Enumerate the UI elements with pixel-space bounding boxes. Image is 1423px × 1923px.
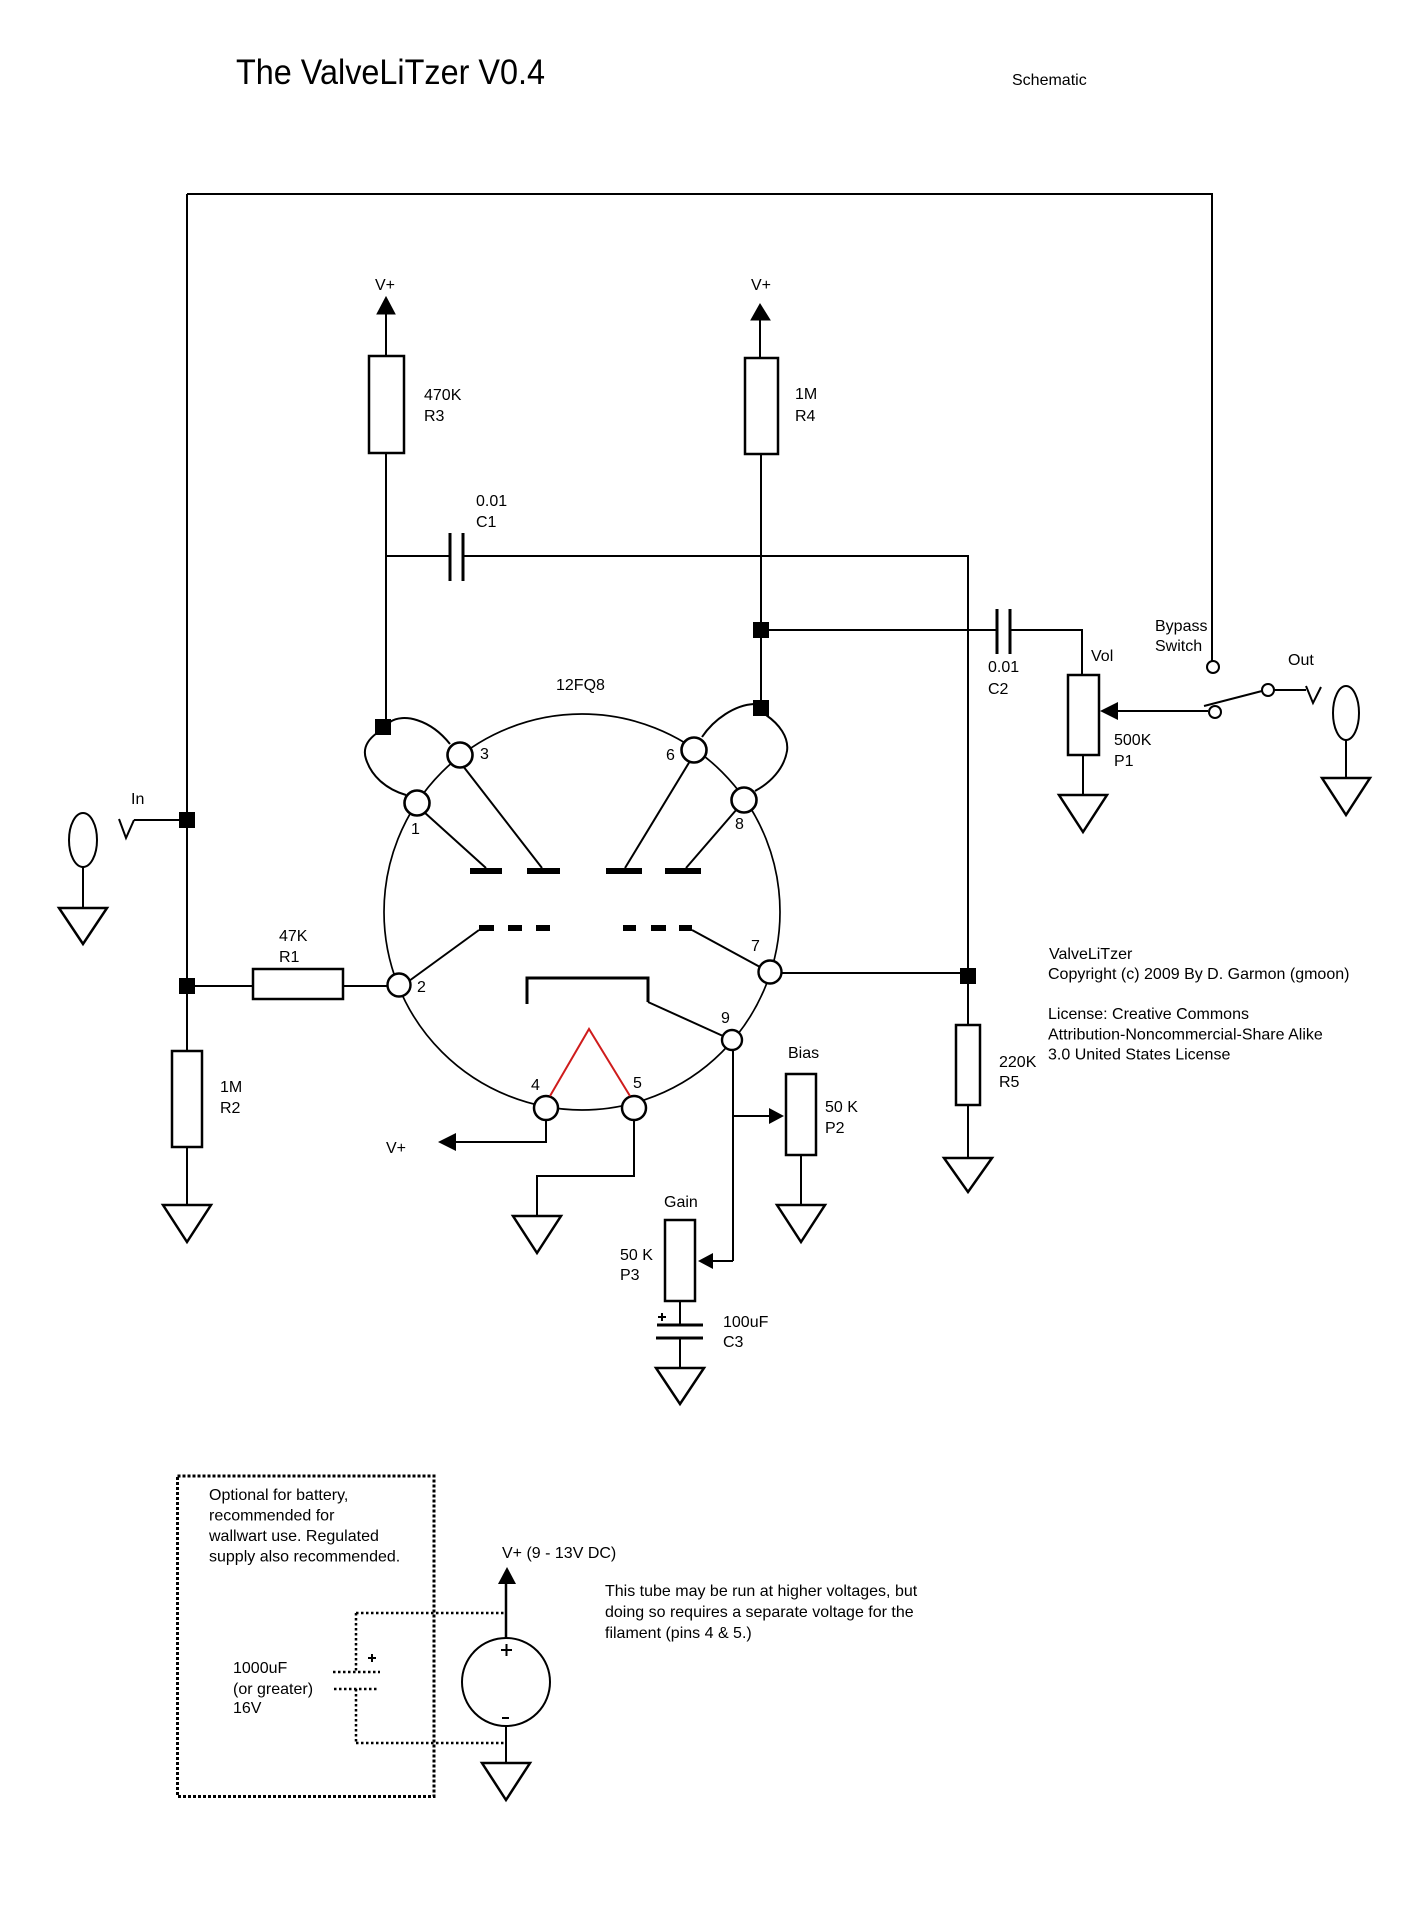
svg-text:wallwart use. Regulated: wallwart use. Regulated bbox=[208, 1528, 379, 1545]
wire jack In to ground bbox=[82, 867, 84, 908]
svg-text:C1: C1 bbox=[476, 514, 497, 531]
svg-text:1M: 1M bbox=[795, 386, 817, 403]
wire to P3 wiper bbox=[712, 1260, 733, 1262]
svg-text:0.01: 0.01 bbox=[988, 659, 1019, 676]
pin 3 bbox=[448, 743, 473, 768]
wire pin 1 to plate a bbox=[424, 812, 486, 868]
pin 4 bbox=[534, 1096, 558, 1120]
svg-text:supply also recommended.: supply also recommended. bbox=[209, 1549, 400, 1566]
wire P1 to ground bbox=[1082, 755, 1084, 795]
wire switch arm bbox=[1204, 691, 1262, 706]
wire grid left to pin 2 bbox=[409, 930, 479, 981]
power V+ source arrow bbox=[498, 1567, 516, 1584]
resistor R4 bbox=[745, 358, 778, 454]
svg-text:The ValveLiTzer V0.4: The ValveLiTzer V0.4 bbox=[236, 53, 545, 92]
filament (red) bbox=[550, 1029, 630, 1096]
svg-text:9: 9 bbox=[721, 1010, 730, 1027]
svg-text:filament (pins 4 & 5.): filament (pins 4 & 5.) bbox=[605, 1625, 752, 1642]
capacitor C2 bbox=[769, 629, 997, 631]
wire pin 5 to ground bbox=[537, 1119, 634, 1216]
plate anode c bbox=[606, 868, 642, 874]
wire loop to pin 3 bbox=[390, 718, 450, 744]
junction right grid loop node bbox=[753, 700, 769, 716]
wire to R1 bbox=[195, 985, 253, 987]
wire P3 to C3 bbox=[679, 1301, 681, 1325]
svg-text:This tube may be run at higher: This tube may be run at higher voltages,… bbox=[605, 1583, 918, 1600]
wire R1 to pin 2 bbox=[343, 985, 388, 987]
svg-text:8: 8 bbox=[735, 816, 744, 833]
source battery circle bbox=[462, 1638, 550, 1726]
svg-text:R3: R3 bbox=[424, 408, 445, 425]
wire node to R5 bbox=[967, 984, 969, 1025]
junction right column node bbox=[960, 968, 976, 984]
grid left dashes bbox=[479, 925, 494, 931]
pin 1 bbox=[405, 791, 430, 816]
capacitor plates dotted bbox=[333, 1671, 380, 1674]
wire P2 to ground bbox=[800, 1155, 802, 1205]
wire R2 to ground bbox=[186, 1147, 188, 1205]
svg-text:12FQ8: 12FQ8 bbox=[556, 677, 605, 694]
pin 2 bbox=[388, 974, 411, 997]
wire R4 down to loop node bbox=[760, 454, 762, 708]
svg-text:0.01: 0.01 bbox=[476, 493, 507, 510]
svg-text:1: 1 bbox=[411, 821, 420, 838]
tube 12FQ8 envelope bbox=[384, 714, 780, 1110]
ground Out jack bbox=[1322, 778, 1370, 815]
wire loop to pin 6 bbox=[702, 704, 754, 737]
svg-text:Bias: Bias bbox=[788, 1045, 819, 1062]
svg-text:500K: 500K bbox=[1114, 732, 1152, 749]
dashed option box bbox=[178, 1476, 435, 1797]
svg-text:100uF: 100uF bbox=[723, 1314, 769, 1331]
wire loop to pin 8 bbox=[755, 715, 787, 791]
svg-text:P3: P3 bbox=[620, 1267, 640, 1284]
capacitor C3 bbox=[657, 1324, 703, 1327]
wire R5 to ground bbox=[967, 1105, 969, 1158]
svg-text:C2: C2 bbox=[988, 681, 1009, 698]
svg-text:3.0 United States License: 3.0 United States License bbox=[1048, 1047, 1230, 1064]
svg-text:7: 7 bbox=[751, 938, 760, 955]
junction grid node bbox=[179, 978, 195, 994]
resistor R1 bbox=[253, 969, 343, 999]
junction In node bbox=[179, 812, 195, 828]
wire pin 4 to V+ bbox=[455, 1119, 546, 1142]
svg-text:1M: 1M bbox=[220, 1079, 242, 1096]
svg-text:Attribution-Noncommercial-Shar: Attribution-Noncommercial-Share Alike bbox=[1048, 1027, 1323, 1044]
svg-text:3: 3 bbox=[480, 746, 489, 763]
wire switch to Out bbox=[1274, 689, 1306, 691]
svg-text:50 K: 50 K bbox=[825, 1099, 858, 1116]
svg-text:4: 4 bbox=[531, 1077, 540, 1094]
wire pin 6 to plate c bbox=[625, 761, 690, 868]
svg-text:R4: R4 bbox=[795, 408, 816, 425]
svg-text:V+ (9 - 13V DC): V+ (9 - 13V DC) bbox=[502, 1545, 616, 1562]
jack tip symbol Out bbox=[1306, 686, 1321, 703]
wire jack Out to ground bbox=[1345, 740, 1347, 778]
wire feedback top loop bbox=[187, 194, 1212, 661]
wire dotted bottom bbox=[355, 1689, 358, 1743]
svg-text:Out: Out bbox=[1288, 652, 1314, 669]
wire loop to pin 1 bbox=[365, 733, 406, 795]
wire C1 to right column bbox=[463, 556, 968, 970]
svg-text:V+: V+ bbox=[386, 1140, 406, 1157]
wire pin 9 down bbox=[732, 1050, 734, 1261]
svg-text:220K: 220K bbox=[999, 1054, 1037, 1071]
svg-text:C3: C3 bbox=[723, 1334, 744, 1351]
svg-text:47K: 47K bbox=[279, 928, 308, 945]
svg-text:V+: V+ bbox=[751, 277, 771, 294]
wire cathode to pin 9 bbox=[648, 1002, 723, 1036]
junction C2 tap node bbox=[753, 622, 769, 638]
ground R2 bbox=[163, 1205, 211, 1242]
svg-text:V+: V+ bbox=[375, 277, 395, 294]
plate anode a bbox=[470, 868, 502, 874]
plate anode d bbox=[665, 868, 701, 874]
svg-text:5: 5 bbox=[633, 1075, 642, 1092]
pin 9 bbox=[722, 1030, 742, 1050]
resistor R2 bbox=[172, 1051, 202, 1147]
wire grid right to pin 7 bbox=[692, 930, 760, 967]
svg-text:License: Creative Commons: License: Creative Commons bbox=[1048, 1006, 1249, 1023]
svg-text:470K: 470K bbox=[424, 387, 462, 404]
svg-text:Schematic: Schematic bbox=[1012, 72, 1087, 89]
svg-text:Vol: Vol bbox=[1091, 648, 1113, 665]
ground In jack bbox=[59, 908, 107, 944]
svg-text:doing so requires a separate v: doing so requires a separate voltage for… bbox=[605, 1604, 914, 1621]
svg-text:P2: P2 bbox=[825, 1120, 845, 1137]
svg-text:R5: R5 bbox=[999, 1074, 1020, 1091]
svg-text:In: In bbox=[131, 791, 144, 808]
ground P2 bbox=[777, 1205, 825, 1242]
cathode bbox=[527, 978, 648, 1004]
svg-text:recommended for: recommended for bbox=[209, 1508, 335, 1525]
wire R3 down to loop node bbox=[385, 453, 387, 727]
wire C2 to P1 bbox=[1010, 630, 1082, 675]
plate anode b bbox=[527, 868, 560, 874]
wire pin 3 to plate b bbox=[463, 766, 542, 868]
svg-text:Switch: Switch bbox=[1155, 638, 1202, 655]
wire pin 7 to node bbox=[781, 972, 962, 974]
svg-text:(or greater): (or greater) bbox=[233, 1681, 313, 1698]
pin 6 bbox=[682, 738, 707, 763]
svg-text:Bypass: Bypass bbox=[1155, 618, 1207, 635]
svg-text:Copyright (c) 2009 By D. Garmo: Copyright (c) 2009 By D. Garmon (gmoon) bbox=[1048, 966, 1349, 983]
svg-text:50 K: 50 K bbox=[620, 1247, 653, 1264]
svg-text:R2: R2 bbox=[220, 1100, 241, 1117]
ground P1 bbox=[1059, 795, 1107, 832]
svg-text:2: 2 bbox=[417, 979, 426, 996]
svg-text:Gain: Gain bbox=[664, 1194, 698, 1211]
pin 8 bbox=[732, 788, 757, 813]
wiper arrow P1 bbox=[1100, 702, 1118, 720]
resistor R5 bbox=[956, 1025, 980, 1105]
wire In to bus bbox=[134, 819, 182, 821]
jack In sleeve bbox=[69, 813, 97, 867]
wire C3 to ground bbox=[679, 1338, 681, 1368]
wire pin 8 to plate d bbox=[686, 809, 737, 868]
pin 7 bbox=[759, 961, 782, 984]
jack Out sleeve bbox=[1333, 686, 1359, 740]
svg-text:1000uF: 1000uF bbox=[233, 1660, 287, 1677]
grid right dashes bbox=[623, 925, 636, 931]
junction left grid loop node bbox=[375, 719, 391, 735]
svg-text:Optional for battery,: Optional for battery, bbox=[209, 1487, 348, 1504]
ground C3 bbox=[656, 1368, 704, 1404]
power V+ filament bbox=[438, 1133, 456, 1151]
wire source to ground bbox=[505, 1726, 507, 1763]
pin 5 bbox=[622, 1096, 646, 1120]
svg-text:R1: R1 bbox=[279, 949, 300, 966]
ground pin 5 bbox=[513, 1216, 561, 1253]
wire to P2 wiper bbox=[733, 1115, 770, 1117]
ground R5 bbox=[944, 1158, 992, 1192]
resistor R3 bbox=[369, 356, 404, 453]
svg-text:ValveLiTzer: ValveLiTzer bbox=[1049, 946, 1133, 963]
ground source bbox=[482, 1763, 530, 1800]
wire left vertical input bus bbox=[186, 194, 188, 1051]
svg-text:6: 6 bbox=[666, 747, 675, 764]
jack tip symbol In bbox=[119, 819, 134, 838]
svg-text:16V: 16V bbox=[233, 1700, 262, 1717]
capacitor C1 bbox=[386, 555, 450, 557]
wire dotted top bbox=[356, 1612, 506, 1615]
svg-text:P1: P1 bbox=[1114, 753, 1134, 770]
